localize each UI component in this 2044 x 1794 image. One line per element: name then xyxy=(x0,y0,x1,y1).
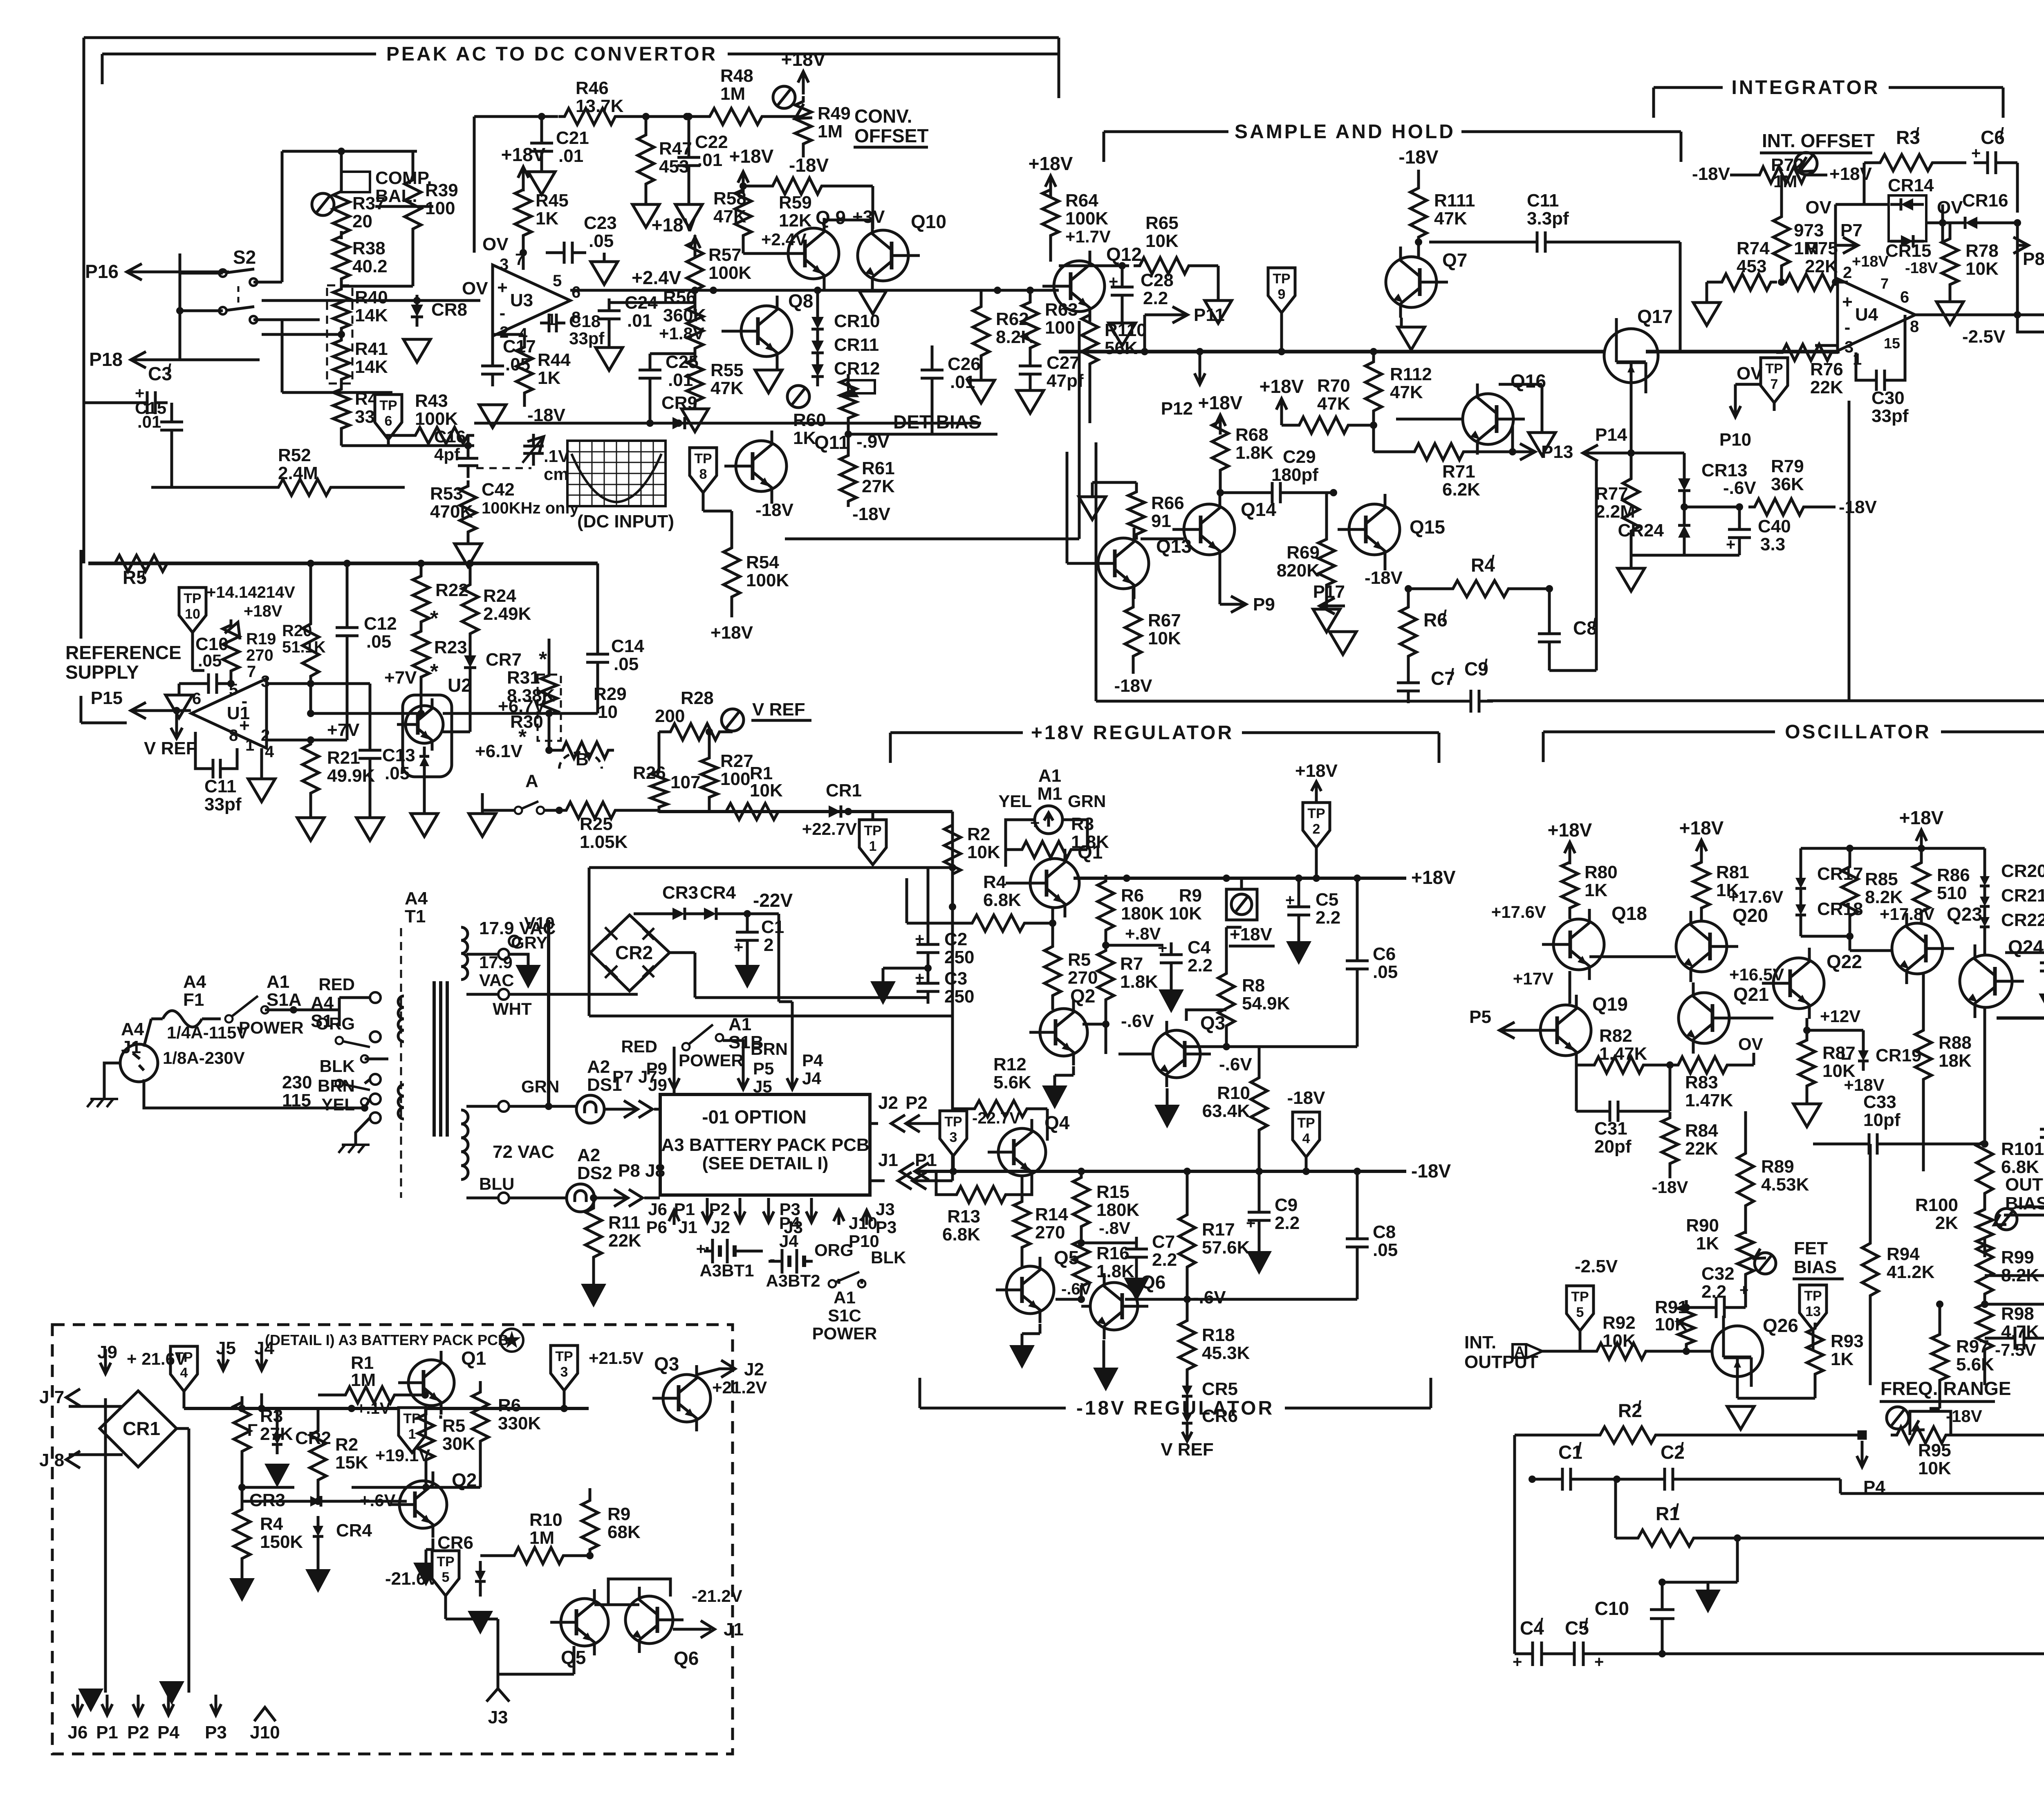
svg-text:CR21: CR21 xyxy=(2001,886,2044,906)
svg-text:T1: T1 xyxy=(405,906,426,926)
svg-text:(DETAIL I) A3 BATTERY PACK PC: (DETAIL I) A3 BATTERY PACK PCB xyxy=(265,1332,509,1348)
trimmer R95 10K xyxy=(1887,1407,1909,1429)
svg-text:270: 270 xyxy=(246,646,273,664)
svg-text:2.2: 2.2 xyxy=(1143,288,1168,308)
wire freq bus xyxy=(1515,1434,1593,1437)
svg-text:Q8: Q8 xyxy=(788,290,813,312)
svg-text:-22.7V: -22.7V xyxy=(972,1109,1020,1127)
resistor R19 270 xyxy=(223,619,239,677)
svg-text:10K: 10K xyxy=(1966,259,1999,279)
svg-text:+19.1V: +19.1V xyxy=(375,1446,430,1465)
capacitor C7 2.2 xyxy=(1135,1237,1138,1249)
resistor R14 270 xyxy=(1014,1196,1030,1253)
svg-text:PEAK AC TO DC CONVERTOR: PEAK AC TO DC CONVERTOR xyxy=(386,43,717,65)
svg-text:C4: C4 xyxy=(1188,937,1211,958)
resistor R3 27K det xyxy=(234,1396,250,1458)
svg-text:100K: 100K xyxy=(415,409,458,429)
svg-text:R44: R44 xyxy=(538,350,571,370)
wire osc top rail xyxy=(1801,847,1985,850)
capacitor C2 250 xyxy=(927,932,930,944)
svg-text:CR6: CR6 xyxy=(437,1533,473,1553)
svg-text:+: + xyxy=(1739,1282,1748,1299)
wire ref top bus xyxy=(88,562,598,565)
svg-text:-18V: -18V xyxy=(1839,497,1877,517)
resistor R2 15K det xyxy=(310,1425,326,1486)
svg-text:R30: R30 xyxy=(510,712,543,732)
svg-text:ORG: ORG xyxy=(316,1014,355,1033)
svg-text:GRN: GRN xyxy=(521,1077,559,1096)
svg-text:TP: TP xyxy=(437,1554,454,1570)
resistor R38 xyxy=(333,231,350,284)
svg-text:10K: 10K xyxy=(1918,1458,1951,1478)
svg-text:WHT: WHT xyxy=(493,999,532,1018)
transistor U2 ref xyxy=(403,695,452,777)
diodes CR20-CR22 xyxy=(1980,876,1990,886)
diode CR17 xyxy=(1795,878,1806,888)
svg-text:-.6V: -.6V xyxy=(1193,1287,1226,1307)
resistor R93 1K xyxy=(1807,1323,1823,1380)
meter A1 M1 xyxy=(1035,806,1062,834)
svg-text:INT. OFFSET: INT. OFFSET xyxy=(1762,130,1875,151)
transistor Q2 det xyxy=(399,1481,447,1528)
svg-text:+: + xyxy=(1594,1653,1604,1671)
svg-text:6: 6 xyxy=(1900,288,1909,306)
svg-text:*: * xyxy=(430,607,439,630)
svg-text:U2: U2 xyxy=(448,675,472,696)
svg-text:+7V: +7V xyxy=(327,720,360,740)
bridge CR2 xyxy=(590,915,670,991)
svg-text:RED: RED xyxy=(318,975,355,994)
terminal P12 xyxy=(1199,356,1201,384)
battery A3BT1 xyxy=(711,1239,714,1263)
terminal P9 xyxy=(1231,596,1246,612)
svg-text:R16: R16 xyxy=(1096,1243,1130,1263)
svg-text:R55: R55 xyxy=(710,360,744,380)
resistor R1 1M det xyxy=(339,1387,401,1403)
capacitor C7' xyxy=(1407,671,1410,683)
svg-text:GRY: GRY xyxy=(511,933,547,952)
svg-text:R10: R10 xyxy=(1217,1083,1250,1103)
svg-text:P1: P1 xyxy=(96,1722,118,1742)
svg-text:R88: R88 xyxy=(1939,1033,1972,1053)
svg-text:+2.4V: +2.4V xyxy=(632,267,681,288)
capacitor C14 .05 xyxy=(596,642,599,654)
resistor R1' xyxy=(1631,1530,1701,1546)
resistor R73 1M xyxy=(1773,211,1790,272)
svg-text:P2: P2 xyxy=(127,1722,149,1742)
resistor R18 45.3K xyxy=(1179,1314,1195,1376)
wire osc couple xyxy=(1714,1017,1773,1020)
svg-text:15: 15 xyxy=(1884,335,1900,352)
svg-text:R83: R83 xyxy=(1685,1072,1718,1092)
terminal P1 chevron xyxy=(915,1163,929,1180)
wire U1 inputs xyxy=(267,682,311,685)
svg-text:R3: R3 xyxy=(260,1406,283,1426)
svg-text:-18V: -18V xyxy=(755,500,794,520)
svg-text:DS2: DS2 xyxy=(577,1163,612,1183)
svg-text:Q23: Q23 xyxy=(1947,904,1982,925)
power +18V R58 xyxy=(742,172,745,194)
svg-text:2.49K: 2.49K xyxy=(483,604,531,624)
svg-text:+17.6V: +17.6V xyxy=(1728,887,1783,906)
resistor R74 453 xyxy=(1716,274,1777,290)
svg-text:47K: 47K xyxy=(710,378,744,398)
svg-text:V REF: V REF xyxy=(752,700,805,720)
connector J6 P6 opt xyxy=(673,1210,676,1225)
svg-text:/: / xyxy=(1577,1440,1582,1458)
svg-text:R5: R5 xyxy=(1068,950,1091,970)
connector P4 J4 opt dn xyxy=(767,1198,770,1222)
power supply common C10' xyxy=(1695,1590,1721,1613)
resistor R66 91 xyxy=(1128,487,1145,540)
svg-text:A3BT2: A3BT2 xyxy=(766,1271,820,1290)
test point TP5 osc xyxy=(1567,1286,1594,1331)
svg-text:3.3pf: 3.3pf xyxy=(1527,209,1569,229)
svg-text:Q26: Q26 xyxy=(1763,1315,1798,1336)
svg-text:8.2K: 8.2K xyxy=(996,327,1034,347)
wire feedback top xyxy=(473,117,476,253)
svg-text:R58: R58 xyxy=(713,188,746,209)
resistor R5 270 xyxy=(1044,940,1061,1002)
svg-text:R12: R12 xyxy=(993,1054,1026,1074)
svg-text:C22: C22 xyxy=(695,132,728,152)
svg-text:CR4: CR4 xyxy=(336,1520,372,1541)
svg-text:R46: R46 xyxy=(576,78,609,98)
resistor R45 1K xyxy=(515,184,531,241)
resistor R92 10K xyxy=(1591,1343,1652,1359)
resistor R10 1M det xyxy=(508,1547,569,1564)
resistor R68 1.8K xyxy=(1212,415,1228,476)
svg-text:.05: .05 xyxy=(589,231,614,251)
svg-text:R4: R4 xyxy=(983,872,1006,892)
diode CR4 rect xyxy=(704,908,716,920)
svg-text:.01: .01 xyxy=(697,150,722,170)
svg-text:47K: 47K xyxy=(1317,394,1350,414)
svg-text:RED: RED xyxy=(621,1037,657,1056)
wire osc mid bus xyxy=(1997,1016,2044,1020)
svg-text:-18V REGULATOR: -18V REGULATOR xyxy=(1076,1397,1274,1419)
svg-text:R89: R89 xyxy=(1761,1157,1794,1177)
svg-text:C40: C40 xyxy=(1758,516,1791,536)
svg-text:P13: P13 xyxy=(1541,442,1573,462)
svg-text:91: 91 xyxy=(1151,511,1171,531)
svg-text:/: / xyxy=(1915,125,1919,143)
diode CR1 reg xyxy=(829,805,841,818)
svg-text:C2: C2 xyxy=(944,929,967,949)
svg-text:-18V: -18V xyxy=(1411,1160,1451,1182)
connector J8 det xyxy=(66,1451,80,1468)
switch A1 S1C xyxy=(829,1280,836,1287)
svg-text:Q24: Q24 xyxy=(2008,936,2044,958)
svg-text:(SEE DETAIL I): (SEE DETAIL I) xyxy=(702,1153,829,1173)
capacitor C15 .01 xyxy=(170,410,173,422)
svg-text:C30: C30 xyxy=(1871,388,1905,408)
svg-text:R78: R78 xyxy=(1966,241,1999,261)
svg-text:36K: 36K xyxy=(1771,474,1804,494)
section bracket -18V REGULATOR xyxy=(920,1407,1066,1410)
resistor R82 1.47K xyxy=(1588,1057,1650,1073)
svg-text:470K: 470K xyxy=(430,502,473,522)
svg-text:45.3K: 45.3K xyxy=(1202,1343,1250,1363)
terminal P7 xyxy=(1843,237,1858,253)
svg-text:C21: C21 xyxy=(556,128,589,148)
svg-text:R9: R9 xyxy=(1179,886,1202,906)
svg-text:8: 8 xyxy=(1910,318,1919,336)
resistor R94 41.2K xyxy=(1862,1237,1878,1302)
resistor R61 27K xyxy=(840,450,856,507)
svg-text:P6: P6 xyxy=(646,1218,667,1237)
transistor Q13 xyxy=(1098,538,1149,589)
svg-text:S2: S2 xyxy=(233,247,256,268)
svg-text:Q4: Q4 xyxy=(1044,1112,1070,1133)
wire Q27 base bus xyxy=(1985,1274,2044,1277)
svg-text:+.1V: +.1V xyxy=(356,1399,391,1417)
svg-text:CR8: CR8 xyxy=(431,300,467,320)
svg-text:-18V: -18V xyxy=(1905,260,1938,277)
svg-text:+18V: +18V xyxy=(1411,867,1456,888)
connector J1 det xyxy=(701,1621,715,1638)
svg-text:47K: 47K xyxy=(713,206,746,226)
resistor R88 18K xyxy=(1915,1024,1932,1085)
resistor R5 30K det xyxy=(418,1408,434,1466)
svg-text:R9: R9 xyxy=(607,1504,630,1524)
svg-text:-18V: -18V xyxy=(1946,1406,1982,1426)
svg-text:P3: P3 xyxy=(780,1200,800,1219)
svg-text:CR16: CR16 xyxy=(1962,191,2008,211)
svg-text:3: 3 xyxy=(261,673,270,691)
resistor R91 xyxy=(1678,1300,1694,1349)
diode CR19 xyxy=(1858,1050,1869,1061)
svg-text:-18V: -18V xyxy=(789,155,829,176)
resistor R69 820K xyxy=(1318,534,1335,591)
capacitor C2' xyxy=(1651,1478,1665,1481)
resistor R4 6.8K xyxy=(966,915,1031,931)
svg-text:+18V: +18V xyxy=(1029,153,1073,174)
wire Q13-Q14 xyxy=(1141,538,1184,540)
svg-text:27K: 27K xyxy=(862,476,895,496)
svg-text:BLK: BLK xyxy=(320,1056,355,1076)
wire J9 rail xyxy=(104,1398,107,1693)
svg-text:INTEGRATOR: INTEGRATOR xyxy=(1732,77,1880,99)
transistor Q5 det xyxy=(561,1599,608,1646)
svg-text:1M: 1M xyxy=(720,84,745,104)
svg-text:4: 4 xyxy=(1302,1131,1310,1146)
svg-text:+18V: +18V xyxy=(501,144,546,165)
svg-text:BRN: BRN xyxy=(318,1076,355,1095)
wire R65 row xyxy=(1059,265,1129,267)
resistor R65 10K xyxy=(1134,258,1195,274)
svg-text:P8: P8 xyxy=(2023,249,2044,269)
wire Q17 drain bus xyxy=(1646,350,1840,354)
svg-text:J1: J1 xyxy=(878,1150,898,1170)
svg-text:C14: C14 xyxy=(611,636,644,656)
capacitor C5 2.2 xyxy=(1298,895,1300,907)
svg-text:C18: C18 xyxy=(569,312,601,331)
svg-text:R20: R20 xyxy=(282,622,312,640)
svg-text:+18V: +18V xyxy=(1844,1075,1884,1094)
svg-text:+18V: +18V xyxy=(1829,164,1872,184)
svg-text:22K: 22K xyxy=(608,1231,641,1251)
diode CR16 xyxy=(1965,217,1977,229)
svg-text:200: 200 xyxy=(655,706,685,726)
svg-text:6: 6 xyxy=(192,690,201,708)
svg-text:OUTPUT: OUTPUT xyxy=(2005,1175,2044,1195)
svg-text:27K: 27K xyxy=(260,1424,293,1444)
resistor R58 47K xyxy=(735,184,751,241)
svg-text:TP: TP xyxy=(1765,361,1783,377)
resistor R17 57.6K xyxy=(1179,1208,1195,1274)
svg-text:J3: J3 xyxy=(488,1707,508,1727)
svg-text:2: 2 xyxy=(1313,821,1320,837)
wire Q18-Q20 bases xyxy=(1589,955,1676,958)
svg-text:CR1: CR1 xyxy=(123,1418,160,1439)
svg-text:Q3: Q3 xyxy=(1200,1012,1225,1034)
svg-text:+18V: +18V xyxy=(710,623,753,643)
svg-text:820K: 820K xyxy=(1277,561,1320,581)
capacitor C32 2.2 xyxy=(1702,1306,1716,1309)
wire Q9 base xyxy=(743,252,779,255)
svg-text:Q19: Q19 xyxy=(1592,993,1628,1015)
trimmer R9 10K reg xyxy=(1226,889,1257,920)
resistor R101 6.8K xyxy=(1977,1135,1993,1200)
svg-text:+12V: +12V xyxy=(1820,1007,1860,1026)
capacitor C28 2.2 xyxy=(1121,275,1124,287)
svg-text:+18V: +18V xyxy=(1295,761,1338,781)
svg-text:J4: J4 xyxy=(254,1338,274,1358)
resistor R54 100K xyxy=(724,542,740,603)
resistor R75 22K xyxy=(1780,274,1841,290)
svg-text:OV: OV xyxy=(482,234,509,254)
transistor Q18 xyxy=(1553,919,1604,970)
resistor R27 100 xyxy=(701,753,717,802)
resistor R16 1.8K xyxy=(1073,1235,1089,1292)
test point TP8 xyxy=(690,448,717,493)
svg-text:2: 2 xyxy=(1843,264,1852,282)
svg-text:.1V: .1V xyxy=(544,446,569,466)
svg-text:47K: 47K xyxy=(1434,209,1467,229)
svg-text:TP: TP xyxy=(1571,1289,1589,1305)
svg-text:J 7: J 7 xyxy=(39,1387,64,1407)
svg-text:+18V REGULATOR: +18V REGULATOR xyxy=(1031,722,1234,744)
svg-text:C16: C16 xyxy=(434,427,466,446)
svg-text:1K: 1K xyxy=(536,209,558,229)
svg-text:14K: 14K xyxy=(355,357,388,377)
test point TP3 det xyxy=(551,1345,578,1390)
svg-text:*: * xyxy=(539,648,547,671)
capacitor C9 2.2 xyxy=(1258,1200,1261,1212)
svg-text:POWER: POWER xyxy=(812,1324,877,1343)
svg-text:R13: R13 xyxy=(947,1206,980,1227)
resistor R79 36K xyxy=(1748,499,1810,515)
resistor R41 14K xyxy=(333,335,350,384)
connector P3 J3 opt dn xyxy=(810,1198,813,1222)
svg-text:9: 9 xyxy=(1278,287,1286,302)
power +18V Q18 xyxy=(1569,842,1571,864)
svg-text:R8: R8 xyxy=(1242,975,1265,996)
svg-text:17.9: 17.9 xyxy=(479,953,513,972)
svg-text:R82: R82 xyxy=(1599,1026,1632,1046)
svg-text:+18V: +18V xyxy=(1198,392,1243,413)
svg-text:1M: 1M xyxy=(818,121,843,141)
svg-text:Q2: Q2 xyxy=(1070,985,1095,1007)
svg-text:+17.8V: +17.8V xyxy=(1880,904,1934,924)
svg-text:+7V: +7V xyxy=(384,668,417,688)
svg-text:+6.1V: +6.1V xyxy=(475,741,523,761)
svg-text:2.2: 2.2 xyxy=(1701,1282,1726,1302)
dashed select box R40/R41 xyxy=(327,285,352,383)
svg-text:10: 10 xyxy=(598,702,618,722)
svg-text:/: / xyxy=(1442,607,1447,625)
svg-text:+.8V: +.8V xyxy=(1125,924,1161,943)
svg-text:250: 250 xyxy=(944,947,974,967)
transistor Q2 reg xyxy=(1040,1009,1087,1056)
svg-text:TP: TP xyxy=(864,823,881,839)
svg-text:R65: R65 xyxy=(1145,213,1179,233)
svg-text:C11: C11 xyxy=(204,776,236,796)
svg-text:/: / xyxy=(1679,1440,1684,1458)
svg-text:1K: 1K xyxy=(1696,1233,1719,1254)
svg-text:2.2: 2.2 xyxy=(1188,955,1213,975)
capacitor C1' xyxy=(1549,1478,1562,1481)
svg-text:P2: P2 xyxy=(905,1093,928,1113)
svg-text:-2.5V: -2.5V xyxy=(1575,1256,1618,1276)
svg-text:P9: P9 xyxy=(1253,594,1275,614)
svg-text:1: 1 xyxy=(408,1426,416,1442)
transistor Q9 xyxy=(788,228,839,279)
svg-text:R15: R15 xyxy=(1096,1182,1130,1202)
svg-text:P4: P4 xyxy=(802,1051,823,1070)
svg-text:R47: R47 xyxy=(659,139,692,159)
svg-text:R24: R24 xyxy=(483,586,516,606)
svg-text:TP: TP xyxy=(1804,1288,1822,1304)
wire left loop xyxy=(84,401,137,404)
wire CR2 out xyxy=(670,951,695,954)
resistor R59 12K xyxy=(766,178,828,194)
transformer core xyxy=(433,981,436,1137)
svg-text:R69: R69 xyxy=(1286,543,1320,563)
transistor Q6 reg xyxy=(1090,1283,1138,1330)
svg-text:R59: R59 xyxy=(779,193,812,213)
svg-text:54.9K: 54.9K xyxy=(1242,993,1290,1014)
svg-text:22K: 22K xyxy=(1685,1139,1718,1159)
svg-text:13: 13 xyxy=(1805,1304,1821,1319)
svg-text:A1: A1 xyxy=(267,972,289,992)
svg-text:-18V: -18V xyxy=(852,504,891,524)
svg-text:R18: R18 xyxy=(1202,1325,1235,1345)
svg-text:51.1K: 51.1K xyxy=(282,638,326,656)
transistor Q23 xyxy=(1892,923,1943,974)
resistor R111 47K xyxy=(1410,182,1427,243)
power +18V R70 xyxy=(1280,399,1283,419)
svg-text:+22.7V: +22.7V xyxy=(802,819,857,839)
svg-text:/: / xyxy=(1637,1398,1641,1416)
svg-text:C32: C32 xyxy=(1701,1264,1735,1284)
transformer primary terminals xyxy=(370,992,381,1003)
svg-text:56K: 56K xyxy=(1105,338,1138,358)
svg-text:BLU: BLU xyxy=(479,1174,514,1193)
svg-text:-18V: -18V xyxy=(1652,1177,1688,1197)
test point TP5 det xyxy=(432,1551,459,1596)
svg-text:72 VAC: 72 VAC xyxy=(493,1142,554,1162)
svg-text:R31: R31 xyxy=(507,668,540,688)
svg-text:CR19: CR19 xyxy=(1876,1045,1922,1065)
svg-text:R5: R5 xyxy=(442,1416,465,1436)
svg-text:41.2K: 41.2K xyxy=(1887,1262,1935,1282)
svg-text:P3: P3 xyxy=(876,1218,896,1237)
svg-text:-22V: -22V xyxy=(753,890,793,911)
svg-text:R25: R25 xyxy=(580,814,613,834)
note star symbol title xyxy=(500,1329,523,1352)
